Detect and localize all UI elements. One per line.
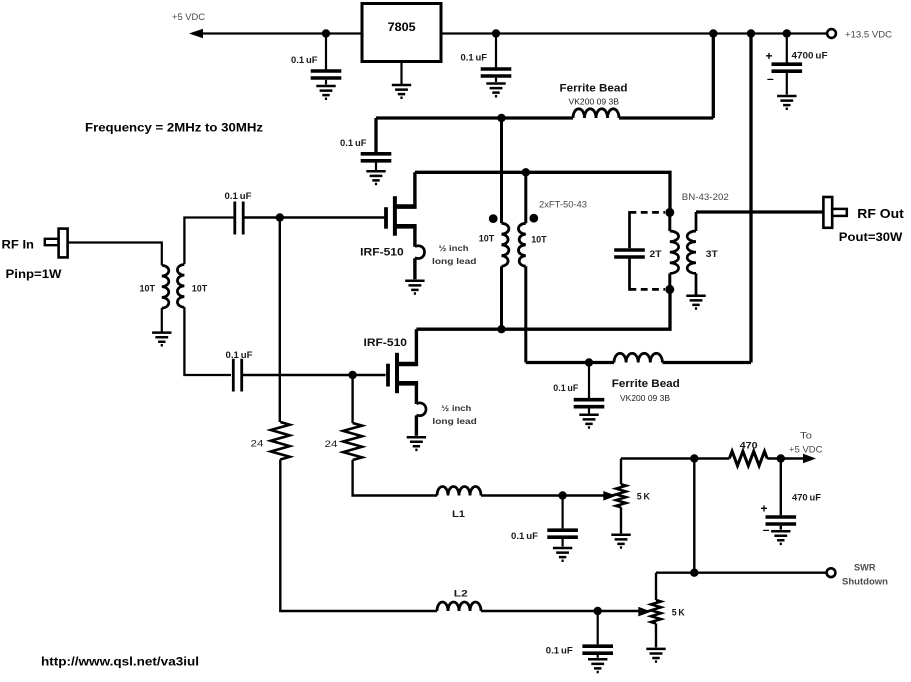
capacitor C5 lead [561, 496, 563, 529]
wire gate1 bias drop [279, 218, 281, 423]
wire R1 to L2 net [280, 460, 437, 612]
capacitor C10 upper lead [628, 211, 631, 248]
node J9 T2 left bottom junction [497, 325, 505, 333]
svg-text:long lead: long lead [432, 256, 477, 266]
svg-text:long lead: long lead [432, 416, 477, 426]
capacitor C7 plates [772, 64, 803, 71]
resistor R1 24 [271, 422, 290, 460]
wire bead1 to J3 riser [619, 116, 713, 119]
svg-text:Ferrite Bead: Ferrite Bead [560, 83, 628, 95]
connector RF Out stub [832, 209, 847, 216]
ground P1 [611, 535, 630, 548]
wire pot1 bottom [620, 507, 622, 533]
capacitor C4 lower lead [588, 408, 590, 413]
inductor T3 primary 2T upper lead [668, 212, 671, 231]
potentiometer P2 5K [651, 600, 661, 624]
svg-text:24: 24 [325, 439, 338, 450]
capacitor C4 plates [574, 400, 605, 407]
capacitor C8 0.1uF series gate1 [235, 202, 243, 235]
wire pot1 top [620, 459, 622, 485]
node J3 junction bead1 feed [709, 29, 717, 37]
inductor T1 secondary 10T [177, 265, 184, 308]
svg-text:0.1 uF: 0.1 uF [461, 53, 488, 63]
svg-text:10T: 10T [192, 283, 208, 293]
svg-text:7805: 7805 [388, 20, 416, 34]
capacitor C10 plates [614, 250, 645, 257]
svg-text:+: + [761, 502, 768, 516]
inductor T2 left 10T [502, 223, 509, 266]
svg-text:½ inch: ½ inch [441, 403, 471, 413]
svg-text:L1: L1 [452, 509, 465, 519]
capacitor C4 lead [588, 363, 590, 399]
wire T3 bottom link dashed [630, 288, 666, 291]
svg-text:+13.5 VDC: +13.5 VDC [845, 29, 892, 40]
svg-text:+5 VDC: +5 VDC [172, 12, 205, 23]
svg-text:VK200 09 3B: VK200 09 3B [620, 393, 670, 403]
ground C2 [486, 84, 505, 97]
wire drain2 rail [416, 289, 670, 329]
ground T3 secondary [686, 296, 705, 309]
wire Q2 source to ground [415, 415, 418, 435]
capacitor C5 plates [547, 530, 578, 537]
inductor L2 [437, 602, 481, 611]
transistor Q2 gate bar [386, 364, 390, 387]
svg-text:0.1 uF: 0.1 uF [511, 531, 538, 541]
wire C8 to gate1 [243, 216, 384, 218]
capacitor C10 lower lead [628, 259, 631, 291]
svg-text:0.1 uF: 0.1 uF [291, 55, 318, 65]
wire T2 right winding top [524, 172, 527, 223]
arrow to +5 VDC [803, 454, 816, 464]
svg-text:0.1 uF: 0.1 uF [553, 383, 578, 393]
capacitor C7 4700uF lead [786, 34, 788, 63]
wire pot2 bottom [655, 624, 657, 648]
ground C3 [366, 171, 385, 184]
wire bead2 net left [526, 361, 614, 364]
ferrite bead FB2 [614, 353, 662, 362]
wire T3 top link dashed [630, 211, 666, 214]
wire RF out line [696, 210, 823, 213]
arrow pot1 wiper [603, 491, 616, 501]
node J18 junction C6 [594, 607, 602, 615]
svg-text:Frequency = 2MHz to 30MHz: Frequency = 2MHz to 30MHz [85, 121, 263, 135]
wire T3 secondary to ground [695, 273, 698, 294]
inductor T3 secondary 3T [687, 231, 696, 273]
arrow +5V direction [189, 29, 203, 39]
capacitor C11 plates [766, 517, 797, 524]
terminal SWR shutdown [827, 568, 836, 577]
wire T2 right to bead2 net [524, 266, 527, 362]
svg-text:2T: 2T [650, 249, 662, 259]
wire T1 secondary top [184, 218, 233, 264]
inductor T2 right 10T [518, 223, 525, 266]
svg-text:RF Out: RF Out [857, 207, 904, 221]
wire T1 primary to ground [161, 308, 163, 332]
regulator U1 7805 box [362, 4, 441, 62]
arrow pot2 wiper [638, 607, 651, 617]
transistor Q2 channel bar [395, 353, 399, 393]
svg-text:10T: 10T [140, 283, 156, 293]
wire T1 secondary bottom [184, 307, 231, 375]
ground C1 [316, 86, 335, 99]
capacitor C3 lower lead [375, 163, 377, 171]
svg-text:To: To [800, 431, 812, 442]
wire J4 down to bead2 net [749, 34, 752, 363]
svg-text:SWR: SWR [854, 562, 876, 572]
ground P2 [646, 649, 665, 662]
capacitor C6 lead [597, 611, 599, 644]
connector RF In stub [45, 239, 59, 245]
wire R2 to L1 net [353, 460, 437, 496]
svg-text:Shutdown: Shutdown [842, 577, 888, 587]
resistor R2 24 [343, 423, 362, 460]
svg-text:10T: 10T [531, 234, 547, 244]
node J8 T2 right top junction [522, 168, 530, 176]
capacitor C1 0.1uF lead [325, 34, 327, 70]
svg-text:0.1 uF: 0.1 uF [226, 350, 253, 360]
transistor Q2 source lead [397, 381, 418, 386]
svg-text:BN-43-202: BN-43-202 [682, 192, 729, 203]
svg-text:0.1 uF: 0.1 uF [340, 138, 367, 148]
ground C6 [588, 659, 607, 672]
capacitor C2 plates [481, 69, 512, 76]
inductor T3 primary lower lead [668, 273, 671, 289]
node phase dot T2 right [529, 214, 538, 223]
wire drain1 rail [415, 172, 670, 212]
wire T2 left to drain2 rail [500, 266, 503, 329]
transistor Q1 source pigtail [415, 246, 425, 259]
svg-text:IRF-510: IRF-510 [360, 247, 404, 259]
svg-text:3T: 3T [706, 249, 718, 259]
connector RF In body [59, 229, 68, 258]
wire L1 to pot1 [481, 494, 605, 496]
svg-text:2xFT-50-43: 2xFT-50-43 [539, 200, 587, 211]
node J13 junction C4 [585, 358, 593, 366]
capacitor C2 lower lead [495, 78, 497, 82]
ground C7 [777, 96, 796, 109]
svg-text:4700 uF: 4700 uF [792, 51, 828, 61]
node J2 junction C2 [492, 29, 500, 37]
node J7 gate1 bias junction [276, 213, 284, 221]
capacitor C6 plates [582, 646, 613, 653]
wire pot1 to R3 [621, 457, 729, 459]
capacitor C3 lead [374, 118, 377, 152]
capacitor C7 lower lead [786, 73, 788, 95]
wire bead1 net horizontal [376, 116, 573, 119]
node J11 T3 top junction [665, 208, 674, 217]
capacitor C1 lower lead [325, 80, 327, 85]
inductor T3 secondary 3T upper lead [695, 212, 698, 231]
wire gate2 bias drop [351, 375, 353, 423]
transistor Q2 source pigtail [416, 403, 426, 416]
potentiometer P1 5K [616, 484, 626, 507]
svg-text:470: 470 [740, 440, 758, 450]
svg-text:0.1 uF: 0.1 uF [546, 646, 573, 656]
node J16 junction C11 [777, 454, 785, 462]
svg-text:+: + [766, 49, 773, 63]
wire +5V rail to arrow [203, 32, 362, 34]
wire L2 to pot2 [481, 610, 640, 612]
svg-text:http://www.qsl.net/va3iul: http://www.qsl.net/va3iul [41, 657, 199, 669]
svg-text:RF In: RF In [2, 238, 35, 252]
resistor R3 470 [729, 451, 767, 465]
capacitor C1 plates [311, 71, 342, 78]
svg-text:½ inch: ½ inch [439, 243, 469, 253]
node J14 junction C5 [558, 491, 566, 499]
terminal +13.5 VDC [827, 29, 836, 38]
wire J3 down to bead1 net [712, 34, 715, 119]
transistor Q2 drain lead [397, 362, 418, 367]
wire pot2 top [655, 573, 657, 600]
wire bead2 net right [663, 361, 752, 364]
ground Q1 source [405, 281, 424, 294]
svg-text:IRF-510: IRF-510 [364, 337, 408, 349]
inductor L1 [437, 487, 481, 496]
node J5 junction C7 [783, 29, 791, 37]
svg-text:5 K: 5 K [672, 608, 685, 618]
ground T1 primary [152, 333, 171, 346]
svg-text:0.1 uF: 0.1 uF [225, 191, 252, 201]
transistor Q1 gate bar [384, 207, 388, 229]
node J10 gate2 bias junction [348, 371, 356, 379]
ground Q2 source [407, 437, 426, 450]
capacitor C11 470uF lead [780, 459, 782, 516]
node J15 junction x=694 [690, 454, 698, 462]
wire SWR net [656, 572, 826, 574]
capacitor C2 0.1uF lead [495, 34, 497, 68]
ferrite bead FB1 [573, 109, 619, 118]
svg-text:VK200 09 3B: VK200 09 3B [569, 97, 620, 107]
wire U1 ground lead [400, 62, 402, 85]
node J17 junction SWR [690, 569, 698, 577]
ground C11 [771, 531, 790, 544]
svg-text:Ferrite Bead: Ferrite Bead [612, 378, 680, 390]
node phase dot T2 left [489, 214, 498, 223]
svg-text:10T: 10T [479, 234, 495, 244]
ground C5 [553, 548, 572, 561]
node J12 T3 bottom junction [665, 285, 674, 294]
wire C9 to gate2 [242, 374, 386, 376]
transistor Q1 channel bar [393, 196, 397, 236]
wire J15 down to SWR net [693, 459, 695, 573]
ground U1 [392, 85, 411, 98]
inductor T1 primary 10T [162, 265, 169, 308]
svg-text:Pout=30W: Pout=30W [839, 230, 903, 244]
svg-text:L2: L2 [454, 588, 468, 598]
transistor Q1 source lead [395, 224, 417, 229]
node J1 junction on +5V rail [322, 29, 330, 37]
svg-text:24: 24 [251, 439, 264, 450]
node J4 junction +13.5 drop [747, 29, 755, 37]
transistor Q1 drain lead [395, 204, 417, 209]
ground C4 [579, 415, 598, 428]
connector RF Out body [823, 197, 832, 228]
wire RF In to T1 [68, 243, 162, 266]
wire 7805 output to +13.5 rail [441, 32, 827, 34]
wire Q1 source to ground [413, 258, 416, 279]
capacitor C11 lower lead [780, 526, 782, 530]
svg-text:5 K: 5 K [637, 492, 650, 502]
inductor T3 primary 2T [670, 231, 679, 273]
capacitor C3 plates [361, 154, 392, 161]
svg-text:470 uF: 470 uF [792, 493, 821, 503]
capacitor C6 lower lead [597, 655, 599, 658]
capacitor C5 lower lead [561, 539, 563, 547]
wire T2 left winding feed [500, 118, 503, 223]
node J6 junction C3/T2 feed [497, 114, 505, 122]
svg-text:+5 VDC: +5 VDC [789, 444, 823, 455]
capacitor C9 0.1uF series gate2 [233, 359, 241, 392]
svg-text:Pinp=1W: Pinp=1W [6, 267, 63, 281]
svg-text:–: – [763, 523, 770, 537]
wire R3 to arrow [767, 457, 803, 459]
svg-text:–: – [767, 71, 774, 85]
